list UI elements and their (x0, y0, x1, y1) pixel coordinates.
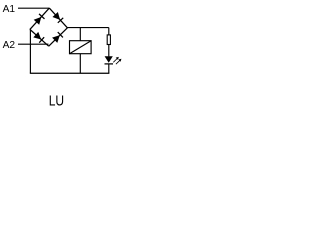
svg-text:A2: A2 (3, 40, 16, 51)
diode D2 (bridge top-to-right edge) (49, 8, 67, 28)
wire DC-minus: bridge left corner down to bottom rail (29, 29, 31, 73)
svg-text:A1: A1 (3, 4, 16, 15)
LED D5 (indicator diode with emission arrows) (105, 56, 122, 64)
wire resistor to LED (108, 45, 110, 57)
wire DC-plus: bridge right corner to resistor column (67, 27, 108, 29)
diode D4 (bridge bottom-to-right edge) (49, 28, 68, 46)
wire resistor feed (108, 28, 110, 36)
wire relay coil to bottom rail (79, 54, 81, 74)
bottom rail wire (30, 72, 110, 74)
wire LED to bottom rail (108, 64, 110, 73)
relay coil K1 (box with diagonal) (70, 41, 92, 54)
diode D3 (bridge left-to-bottom edge) (30, 29, 49, 46)
svg-text:LU: LU (49, 93, 64, 109)
wire A1 to bridge top corner (18, 7, 49, 9)
diode D1 (bridge left-to-top edge) (30, 8, 49, 29)
wire A2 to bridge bottom corner (18, 43, 49, 45)
resistor R1 (107, 35, 110, 45)
wire relay coil feed (79, 28, 81, 41)
